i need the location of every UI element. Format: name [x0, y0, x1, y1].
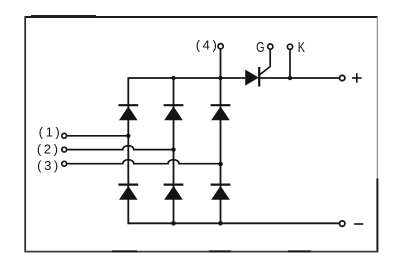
- svg-text:K: K: [298, 38, 305, 55]
- svg-text:(1): (1): [39, 125, 63, 140]
- terminal circle +: [340, 75, 345, 80]
- junction: K lead on cathode line: [288, 76, 292, 80]
- diode D2 top (column 2): [164, 105, 184, 120]
- wire: cathode-sense lead to K: [289, 50, 291, 78]
- diode D1 top (column 1): [118, 105, 138, 120]
- diode D6 bottom (column 3): [211, 185, 231, 200]
- wire: top bus (anode line): [128, 77, 245, 79]
- junction: line 1 on column 1: [126, 134, 130, 138]
- terminal circle G: [268, 44, 273, 49]
- terminal circle (3): [62, 161, 67, 166]
- terminal circle (4): [218, 44, 223, 49]
- wire: input line 3 with hops over columns 1 and 2: [67, 160, 221, 164]
- wire: bridge leg column 2: [173, 78, 175, 223]
- wire: input line 2 with hop over column 1: [67, 146, 174, 150]
- diode D3 top (column 3): [211, 105, 231, 120]
- wire: bridge leg column 3 from terminal (4): [220, 49, 222, 223]
- junction: top bus column 2: [171, 76, 175, 80]
- svg-text:(3): (3): [37, 158, 61, 173]
- junction: bottom bus column 3: [218, 221, 223, 226]
- wire: bottom bus to - terminal: [128, 222, 339, 224]
- svg-text:(2): (2): [37, 142, 61, 157]
- label - (minus sign): [354, 223, 363, 225]
- thyristor SCR: [245, 67, 259, 87]
- package outline: [24, 16, 378, 253]
- terminal circle (1): [62, 133, 67, 138]
- junction: line 3 on column 3: [218, 162, 223, 167]
- label + (plus sign): [352, 73, 362, 82]
- wire: cathode line to + terminal: [259, 77, 339, 79]
- svg-text:(4): (4): [196, 37, 220, 52]
- terminal circle K: [287, 44, 292, 49]
- wire: bridge leg column 1: [127, 77, 129, 224]
- diode D4 bottom (column 1): [118, 185, 138, 200]
- wire: gate lead to G: [260, 50, 271, 75]
- junction: line 2 on column 2: [171, 147, 175, 151]
- junction: top bus column 3: [218, 76, 222, 80]
- diode D5 bottom (column 2): [164, 185, 184, 200]
- wire: input line 1: [67, 135, 129, 137]
- junction: bottom bus column 2: [171, 221, 176, 226]
- terminal circle (2): [62, 147, 67, 152]
- svg-text:G: G: [256, 38, 264, 55]
- terminal circle -: [340, 221, 345, 226]
